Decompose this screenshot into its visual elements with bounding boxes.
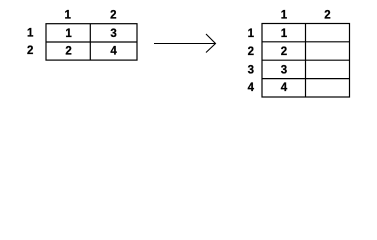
- svg-text:1: 1: [27, 27, 34, 39]
- svg-text:1: 1: [281, 9, 288, 21]
- svg-text:2: 2: [248, 46, 254, 58]
- svg-text:1: 1: [248, 28, 255, 40]
- svg-text:1: 1: [64, 9, 71, 21]
- svg-text:2: 2: [281, 46, 287, 58]
- left matrix table grid: [46, 24, 137, 60]
- svg-text:3: 3: [281, 65, 287, 77]
- svg-text:1: 1: [65, 28, 72, 40]
- svg-text:4: 4: [110, 45, 117, 57]
- right vector table grid: [262, 24, 350, 98]
- arrow head: [206, 34, 216, 53]
- svg-text:2: 2: [27, 45, 33, 57]
- svg-text:4: 4: [281, 82, 288, 94]
- svg-text:3: 3: [110, 28, 116, 40]
- svg-text:3: 3: [248, 65, 254, 77]
- arrow shaft: [154, 43, 215, 45]
- svg-text:2: 2: [324, 9, 330, 21]
- svg-text:2: 2: [110, 9, 116, 21]
- svg-text:2: 2: [65, 45, 71, 57]
- svg-text:1: 1: [281, 28, 288, 40]
- svg-text:4: 4: [248, 82, 255, 94]
